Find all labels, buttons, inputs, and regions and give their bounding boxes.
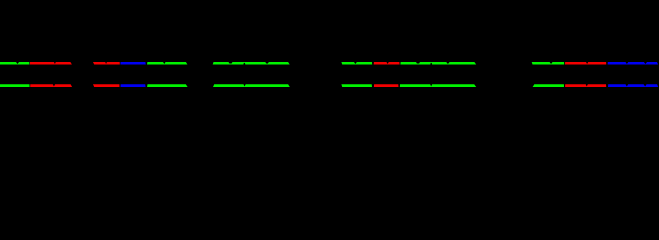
row1 top notch 12 x=586 (586, 62, 588, 64)
r1s1 green segment (0, 62, 29, 64)
r1s8 red segment (374, 62, 400, 64)
row1 top notch 5 x=228 (228, 62, 232, 64)
r2s4 blue segment (121, 84, 146, 87)
row1 top notch 10 x=446 (446, 62, 450, 64)
row2 top notch 3 x=430 (430, 84, 432, 86)
r2s11 red segment (565, 84, 606, 87)
row2 top notch 5 x=625 (625, 84, 628, 86)
row2 top notch 1 x=53 (53, 84, 56, 86)
r1s9 green segment (400, 62, 476, 64)
r1s6 green segment (213, 62, 290, 64)
row2 top notch 6 x=644 (644, 84, 647, 86)
r1s3 red segment (93, 62, 120, 64)
r1s12 blue segment (608, 62, 659, 64)
r1s5 green segment (147, 62, 187, 64)
r2s6 green segment (213, 84, 290, 87)
r1s10 green segment (532, 62, 565, 64)
r2s8 red segment (374, 84, 399, 87)
r1s4 blue segment (120, 62, 145, 64)
row2 top notch 4 x=586 (586, 84, 588, 86)
r2s5 green segment (147, 84, 188, 87)
r2s2 red segment (30, 84, 72, 87)
row1 top notch 4 x=163 (163, 62, 166, 64)
r2s10 green segment (533, 84, 564, 87)
row1 top notch 2 x=54 (54, 62, 56, 64)
row1 top notch 8 x=386 (386, 62, 389, 64)
r1s2 red segment (30, 62, 72, 64)
r2s1 green segment (0, 84, 30, 87)
row1 bottom wedge 2 x=430 (430, 63, 432, 65)
r2s3 red segment (93, 84, 120, 87)
row1 top notch 1 x=16 (16, 62, 19, 64)
row1 top notch 9 x=416 (416, 62, 420, 64)
r1s11 red segment (565, 62, 606, 64)
row2 top notch 2 x=243 (243, 84, 245, 86)
row1 top notch 7 x=354 (354, 62, 357, 64)
row1 top notch 6 x=265 (265, 62, 269, 64)
r1s7 green segment (341, 62, 372, 64)
r2s12 blue segment (608, 84, 658, 87)
row1 top notch 13 x=625 (625, 62, 628, 64)
row1 top notch 3 x=105 (105, 62, 107, 64)
row1 top notch 11 x=549 (549, 62, 552, 64)
r2s9 green segment (400, 84, 476, 87)
row1 top notch 14 x=644 (644, 62, 648, 64)
row1 bottom wedge 1 x=243 (243, 63, 245, 65)
r2s7 green segment (341, 84, 372, 87)
